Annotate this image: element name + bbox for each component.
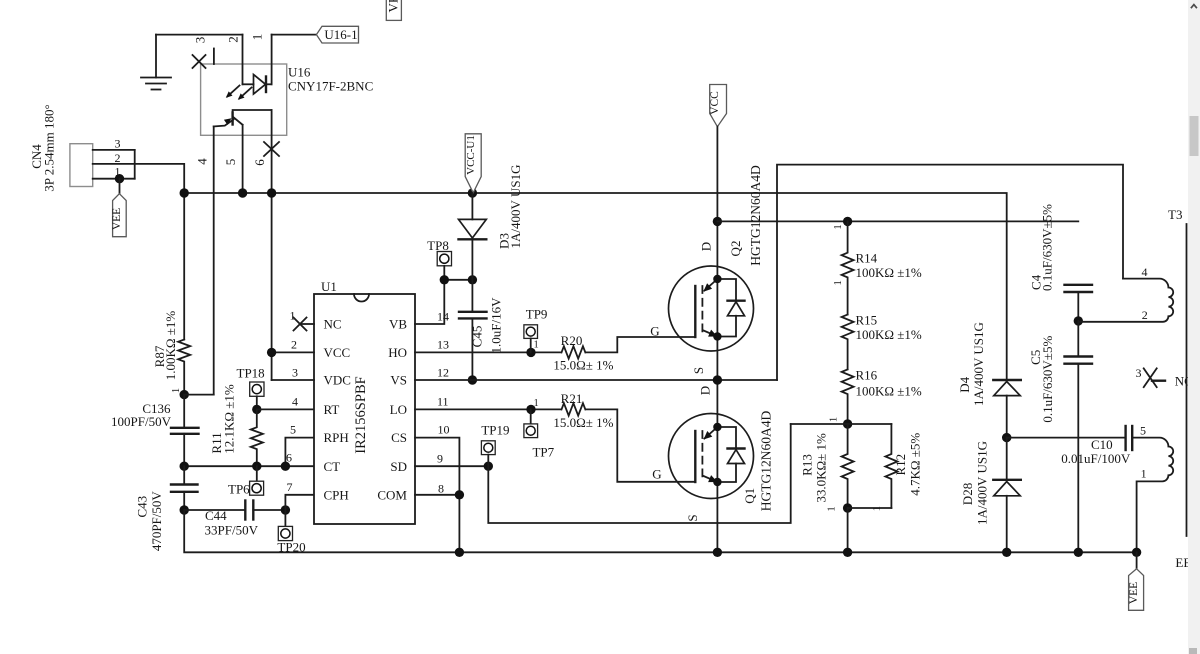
- svg-text:C44: C44: [205, 508, 227, 523]
- svg-text:5: 5: [1140, 423, 1146, 437]
- node CN4 pin1 / VEE: [115, 174, 124, 183]
- wire R13 node to bus: [847, 508, 849, 552]
- svg-text:D28: D28: [960, 483, 975, 505]
- wire VCC to R14/C4 row: [717, 220, 1078, 222]
- U16 emission arrows: [226, 86, 252, 100]
- node R14 top: [843, 217, 852, 226]
- node D3/C45: [468, 275, 477, 284]
- svg-text:1: 1: [534, 398, 539, 409]
- svg-text:C43: C43: [135, 496, 150, 518]
- svg-text:1: 1: [534, 340, 539, 351]
- svg-text:2: 2: [115, 151, 121, 165]
- resistor R13: [800, 424, 854, 512]
- svg-text:SD: SD: [390, 459, 407, 474]
- svg-text:TP6: TP6: [228, 482, 250, 497]
- svg-text:D: D: [699, 242, 714, 251]
- wire R20 to Q2 gate: [586, 337, 695, 352]
- svg-text:3P 2.54mm 180°: 3P 2.54mm 180°: [42, 104, 57, 191]
- svg-text:VCC-U1: VCC-U1: [465, 135, 477, 175]
- node HO/TP9: [526, 348, 535, 357]
- svg-text:D4: D4: [957, 376, 972, 392]
- node D4/D28: [1002, 433, 1011, 442]
- svg-text:CT: CT: [324, 459, 341, 474]
- T3 pin 3 no-connect: [1136, 366, 1193, 388]
- power flag VCC: [709, 85, 726, 127]
- svg-text:3: 3: [1136, 366, 1142, 380]
- wire R13/R12 bottom row: [848, 507, 892, 509]
- svg-text:1A/400V US1G: 1A/400V US1G: [971, 322, 986, 406]
- transistor Q1: [669, 411, 774, 512]
- wire U1 VCC pin2: [272, 351, 314, 353]
- svg-text:100KΩ ±1%: 100KΩ ±1%: [856, 327, 922, 342]
- U16 pin 3 stub: [192, 37, 214, 64]
- svg-text:HGTG12N60A4D: HGTG12N60A4D: [759, 411, 774, 512]
- svg-text:1: 1: [290, 309, 296, 323]
- svg-text:COM: COM: [377, 487, 407, 502]
- diode D28: [960, 438, 1021, 553]
- connector CN4: [29, 104, 135, 191]
- resistor R11: [209, 384, 263, 466]
- pin 1 NC stub with X: [290, 309, 315, 331]
- bottom bus VEE net: [184, 510, 1136, 552]
- svg-text:CS: CS: [391, 430, 407, 445]
- svg-text:U16: U16: [288, 65, 311, 80]
- svg-text:13: 13: [437, 338, 449, 352]
- node RT: [252, 405, 261, 414]
- U16 pin 1 wire: [250, 34, 272, 85]
- node VS/C45: [468, 375, 477, 384]
- wire SD node to R16 bottom node: [488, 424, 790, 523]
- transformer T3 lower winding: [1132, 423, 1173, 552]
- svg-text:S: S: [691, 367, 706, 374]
- node VS / Q2S Q1D: [713, 375, 722, 384]
- wire TP8 to D3 column: [444, 279, 472, 281]
- wire CN4 pin 2 to R87 column: [93, 164, 185, 340]
- resistor R21: [553, 391, 613, 430]
- svg-text:1A/400V US1G: 1A/400V US1G: [975, 441, 990, 525]
- node TP8: [440, 275, 449, 284]
- transformer T3 upper winding: [1078, 265, 1173, 322]
- svg-text:10: 10: [438, 423, 450, 437]
- svg-text:VS: VS: [390, 373, 407, 388]
- U16 pin 2 wire: [225, 35, 242, 85]
- svg-text:470PF/50V: 470PF/50V: [149, 491, 164, 552]
- label VCC-U1: [465, 134, 481, 193]
- wire CS pin10 down to COM and bus: [415, 438, 459, 553]
- pin number labels left: [286, 338, 298, 495]
- resistor R16: [829, 367, 922, 424]
- node R87 bottom: [180, 390, 189, 399]
- wire jog to opto pin4 column: [184, 394, 214, 396]
- node C44 left: [180, 505, 189, 514]
- svg-text:U1: U1: [321, 279, 337, 294]
- svg-text:1A/400V US1G: 1A/400V US1G: [508, 165, 523, 249]
- diode D3: [459, 165, 524, 280]
- svg-text:2: 2: [225, 36, 240, 43]
- node pin2: [267, 348, 276, 357]
- svg-text:C45: C45: [470, 326, 485, 348]
- svg-text:4: 4: [292, 395, 298, 409]
- test point TP18: [237, 365, 265, 409]
- svg-text:R14: R14: [856, 251, 878, 266]
- svg-text:R20: R20: [561, 333, 583, 348]
- svg-text:100KΩ ±1%: 100KΩ ±1%: [856, 384, 922, 399]
- wire VS row: [415, 379, 777, 381]
- resistor R15: [842, 313, 922, 370]
- svg-text:TP9: TP9: [526, 306, 548, 321]
- wire U16 pin 1 to flag: [272, 34, 317, 36]
- junction dots on bus: [180, 188, 478, 197]
- wire RT row: [257, 408, 314, 410]
- capacitor C45: [459, 280, 504, 380]
- capacitor C10: [1061, 426, 1132, 466]
- svg-text:4.7KΩ ±5%: 4.7KΩ ±5%: [907, 433, 922, 496]
- svg-text:6: 6: [252, 159, 267, 166]
- optocoupler U16: [201, 64, 374, 135]
- svg-text:VEE: VEE: [111, 208, 123, 230]
- svg-text:G: G: [650, 324, 659, 339]
- wire COM pin8: [415, 494, 459, 496]
- svg-text:VB: VB: [386, 0, 401, 13]
- capacitor C44: [184, 501, 285, 538]
- wire CPH stub: [285, 495, 314, 510]
- test point TP9: [524, 306, 548, 352]
- svg-text:C10: C10: [1091, 437, 1113, 452]
- svg-text:9: 9: [437, 452, 443, 466]
- U16 LED: [243, 75, 272, 95]
- svg-text:TP19: TP19: [481, 423, 509, 438]
- U16 pin 6 wire (down to U1 VCC/VDC): [252, 110, 272, 380]
- svg-text:0.01uF/100V: 0.01uF/100V: [1061, 451, 1131, 466]
- wire D4 node to C10: [1007, 437, 1126, 439]
- svg-text:15.0Ω± 1%: 15.0Ω± 1%: [553, 415, 613, 430]
- svg-text:15.0Ω± 1%: 15.0Ω± 1%: [553, 358, 613, 373]
- op-amp U1 IR2156SPBF: [314, 279, 415, 524]
- label VB (clipped at top edge): [386, 0, 402, 20]
- svg-text:R12: R12: [893, 454, 908, 476]
- svg-text:1: 1: [826, 506, 837, 511]
- svg-text:HGTG12N60A4D: HGTG12N60A4D: [748, 165, 763, 266]
- svg-text:33PF/50V: 33PF/50V: [205, 523, 259, 538]
- capacitor C5: [1028, 321, 1092, 552]
- transistor Q2: [669, 165, 764, 351]
- wire SD pin9: [415, 465, 488, 467]
- svg-text:RPH: RPH: [324, 430, 349, 445]
- svg-text:TP8: TP8: [427, 238, 449, 253]
- no-connect X on pin 6: [264, 142, 279, 156]
- svg-text:6: 6: [286, 451, 292, 465]
- svg-text:33.0KΩ± 1%: 33.0KΩ± 1%: [813, 433, 828, 503]
- wire VS to T3 pin 4: [777, 165, 1123, 380]
- resistor R20: [553, 333, 613, 373]
- svg-text:1: 1: [1141, 466, 1147, 480]
- wire R21 to Q1 gate: [586, 409, 695, 481]
- svg-text:100KΩ ±1%: 100KΩ ±1%: [856, 265, 922, 280]
- svg-text:TP18: TP18: [237, 365, 265, 380]
- svg-text:VEE: VEE: [1128, 582, 1140, 604]
- svg-text:S: S: [685, 514, 700, 521]
- svg-text:5: 5: [290, 423, 296, 437]
- svg-text:100PF/50V: 100PF/50V: [111, 414, 172, 429]
- resistor R12: [872, 424, 923, 511]
- svg-text:Q1: Q1: [742, 488, 757, 504]
- svg-text:IR2156SPBF: IR2156SPBF: [353, 376, 369, 453]
- svg-text:3: 3: [292, 366, 298, 380]
- svg-text:TP20: TP20: [277, 540, 305, 555]
- node COM: [455, 490, 464, 499]
- resistor R14: [833, 221, 922, 314]
- node LO/TP7: [526, 405, 535, 414]
- svg-text:LO: LO: [390, 402, 407, 417]
- ground: [141, 35, 171, 90]
- junction dots on bottom bus: [455, 548, 1142, 557]
- U16 phototransistor: [214, 110, 272, 126]
- test point TP19: [481, 423, 509, 467]
- svg-text:HO: HO: [388, 345, 407, 360]
- svg-text:2: 2: [291, 338, 297, 352]
- svg-text:RT: RT: [324, 402, 340, 417]
- test point TP8: [427, 238, 451, 280]
- svg-text:3: 3: [192, 37, 207, 44]
- transformer T3 core line: [1168, 207, 1187, 536]
- wire CT row: [184, 465, 314, 467]
- wire VB pin14: [415, 280, 444, 324]
- svg-text:G: G: [652, 467, 661, 482]
- wire VCC column (drain/source chain): [716, 127, 718, 553]
- node C44 right / CPH: [281, 505, 290, 514]
- power flag VEE (left): [111, 194, 126, 237]
- wire R16 bottom row: [791, 423, 892, 425]
- svg-text:VCC: VCC: [324, 345, 351, 360]
- svg-text:U16-1: U16-1: [324, 27, 357, 42]
- svg-text:VB: VB: [389, 317, 407, 332]
- node C4/T3 pin2: [1074, 316, 1083, 325]
- svg-text:12: 12: [437, 366, 449, 380]
- svg-text:R15: R15: [856, 313, 878, 328]
- node CT/RPH: [281, 462, 290, 471]
- wire HO row: [415, 351, 561, 353]
- svg-text:4: 4: [195, 158, 210, 165]
- svg-text:1: 1: [833, 280, 844, 285]
- test point TP7: [524, 409, 555, 459]
- svg-text:8: 8: [438, 482, 444, 496]
- U16 pin 5 wire: [223, 125, 243, 193]
- svg-text:12.1KΩ ±1%: 12.1KΩ ±1%: [222, 384, 237, 454]
- wire to VEE flag: [119, 179, 121, 194]
- svg-text:R21: R21: [561, 391, 583, 406]
- wire RPH stub down to CT: [285, 438, 314, 467]
- svg-text:1: 1: [829, 417, 840, 422]
- test point TP6: [228, 466, 264, 496]
- wire LO row: [415, 408, 561, 410]
- test point TP20: [277, 510, 305, 555]
- svg-text:1.0uF/16V: 1.0uF/16V: [489, 297, 504, 354]
- scrollbar: [1188, 0, 1200, 654]
- svg-text:1.00KΩ ±1%: 1.00KΩ ±1%: [163, 311, 178, 381]
- svg-text:2: 2: [1142, 308, 1148, 322]
- svg-text:R13: R13: [800, 454, 815, 476]
- svg-text:R16: R16: [856, 367, 878, 382]
- svg-text:D: D: [698, 386, 713, 395]
- resistor R87: [152, 311, 190, 395]
- capacitor C4: [1028, 204, 1092, 321]
- svg-text:VDC: VDC: [324, 373, 351, 388]
- pin number labels right: [437, 310, 450, 496]
- svg-text:3: 3: [115, 137, 121, 151]
- node R13 bottom: [843, 503, 852, 512]
- wire U1 VDC pin3: [272, 379, 314, 381]
- svg-text:14: 14: [437, 310, 449, 324]
- svg-text:Q2: Q2: [728, 241, 743, 257]
- svg-text:CPH: CPH: [324, 487, 349, 502]
- label U16-1: [316, 26, 358, 43]
- svg-text:1: 1: [833, 224, 844, 229]
- svg-text:5: 5: [223, 159, 238, 166]
- svg-text:T3: T3: [1168, 207, 1182, 222]
- svg-text:TP7: TP7: [532, 445, 554, 460]
- svg-text:0.1uF/630V±5%: 0.1uF/630V±5%: [1040, 204, 1055, 291]
- no-connect X at U16 box corner: [193, 55, 206, 68]
- capacitor C136: [111, 395, 198, 467]
- svg-text:4: 4: [1142, 265, 1148, 279]
- svg-text:7: 7: [287, 480, 293, 494]
- capacitor C43: [135, 466, 198, 551]
- svg-text:11: 11: [437, 395, 449, 409]
- svg-text:CNY17F-2BNC: CNY17F-2BNC: [288, 79, 373, 94]
- main bus VCC-U1 net (y=193): [184, 193, 1007, 380]
- node CT/left column: [180, 462, 189, 471]
- svg-text:1: 1: [250, 34, 265, 41]
- U16 pin 4 wire (down to R87 node): [195, 126, 214, 394]
- diode D4: [957, 322, 1021, 437]
- svg-text:NC: NC: [324, 317, 342, 332]
- svg-text:VCC: VCC: [709, 91, 721, 115]
- node VCC branch: [713, 217, 722, 226]
- node CT/R11: [252, 462, 261, 471]
- node SD/TP19: [484, 462, 493, 471]
- power flag VEE (bottom right): [1128, 552, 1144, 610]
- wire gnd to U16 pin 2: [156, 34, 243, 36]
- node R16 bottom / sense: [843, 419, 852, 428]
- svg-text:0.1uF/630V±5%: 0.1uF/630V±5%: [1040, 336, 1055, 423]
